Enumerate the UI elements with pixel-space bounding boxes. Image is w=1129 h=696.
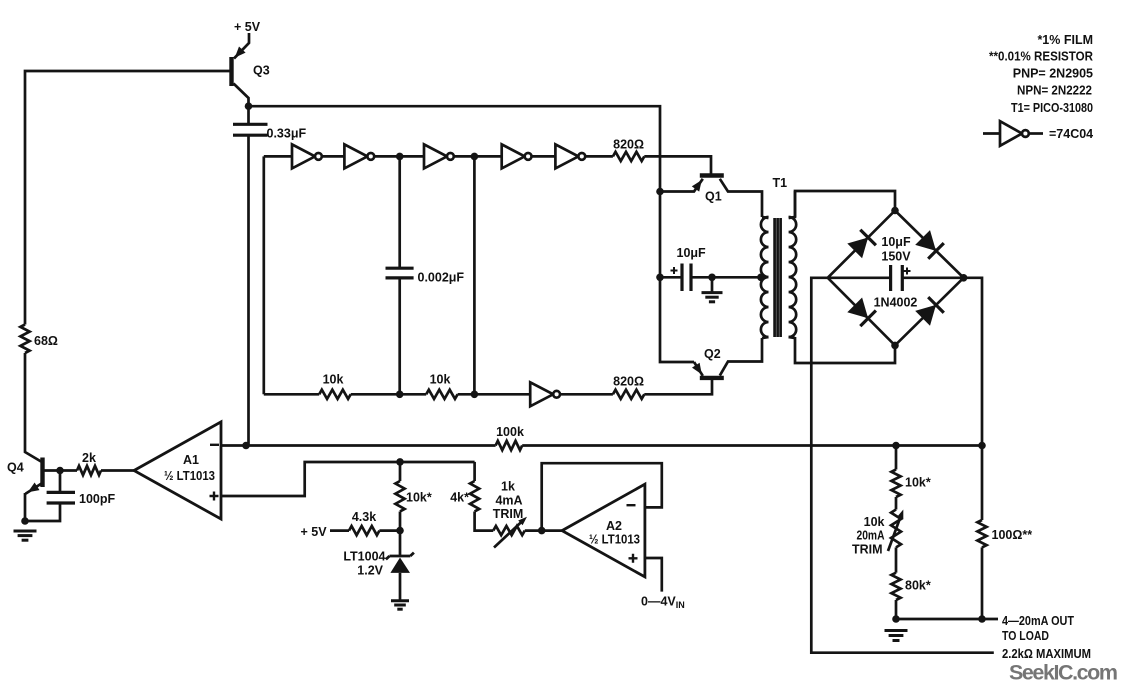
svg-text:100k: 100k	[496, 425, 524, 439]
svg-text:+ 5V: + 5V	[234, 20, 261, 34]
svg-text:20mA: 20mA	[857, 529, 885, 543]
svg-text:2k: 2k	[82, 451, 96, 465]
svg-text:A1: A1	[183, 453, 199, 467]
svg-text:10k*: 10k*	[905, 476, 931, 490]
svg-text:LT1004: LT1004	[343, 550, 385, 564]
svg-text:2.2kΩ MAXIMUM: 2.2kΩ MAXIMUM	[1002, 647, 1091, 661]
svg-text:Q4: Q4	[7, 461, 24, 475]
svg-text:½ LT1013: ½ LT1013	[589, 533, 640, 547]
svg-text:0.33μF: 0.33μF	[267, 127, 307, 141]
svg-text:*1% FILM: *1% FILM	[1037, 33, 1093, 47]
svg-text:+ 5V: + 5V	[301, 525, 328, 539]
svg-text:SeekIC.com: SeekIC.com	[1009, 661, 1118, 685]
svg-text:100pF: 100pF	[79, 492, 115, 506]
svg-text:150V: 150V	[881, 250, 911, 264]
svg-text:1k: 1k	[501, 480, 515, 494]
svg-text:TRIM: TRIM	[493, 507, 524, 521]
svg-text:TRIM: TRIM	[852, 543, 883, 557]
svg-text:68Ω: 68Ω	[34, 334, 58, 348]
svg-text:4k*: 4k*	[450, 491, 469, 505]
svg-text:4mA: 4mA	[495, 494, 522, 508]
svg-text:10k*: 10k*	[406, 491, 432, 505]
svg-text:0.002μF: 0.002μF	[418, 271, 465, 285]
svg-text:Q3: Q3	[253, 64, 270, 78]
svg-text:10k: 10k	[323, 373, 344, 387]
svg-text:4.3k: 4.3k	[352, 510, 376, 524]
svg-text:820Ω: 820Ω	[613, 375, 644, 389]
svg-text:Q2: Q2	[704, 347, 721, 361]
svg-text:10k: 10k	[864, 515, 885, 529]
svg-text:T1= PICO-31080: T1= PICO-31080	[1011, 101, 1093, 115]
svg-text:**0.01% RESISTOR: **0.01% RESISTOR	[989, 50, 1093, 64]
svg-text:PNP= 2N2905: PNP= 2N2905	[1013, 67, 1093, 81]
svg-text:TO LOAD: TO LOAD	[1002, 629, 1049, 643]
svg-text:10k: 10k	[430, 373, 451, 387]
svg-text:Q1: Q1	[705, 190, 722, 204]
svg-text:4—20mA OUT: 4—20mA OUT	[1002, 614, 1074, 628]
svg-text:=74C04: =74C04	[1049, 127, 1093, 141]
svg-text:NPN= 2N2222: NPN= 2N2222	[1017, 84, 1092, 98]
svg-text:1.2V: 1.2V	[357, 564, 383, 578]
svg-text:10μF: 10μF	[677, 246, 707, 260]
svg-text:100Ω**: 100Ω**	[992, 528, 1033, 542]
svg-text:820Ω: 820Ω	[613, 138, 644, 152]
svg-text:T1: T1	[773, 176, 788, 190]
svg-text:80k*: 80k*	[905, 579, 931, 593]
svg-text:A2: A2	[606, 519, 622, 533]
svg-text:10μF: 10μF	[881, 235, 911, 249]
svg-text:1N4002: 1N4002	[874, 296, 918, 310]
svg-text:½ LT1013: ½ LT1013	[164, 469, 215, 483]
